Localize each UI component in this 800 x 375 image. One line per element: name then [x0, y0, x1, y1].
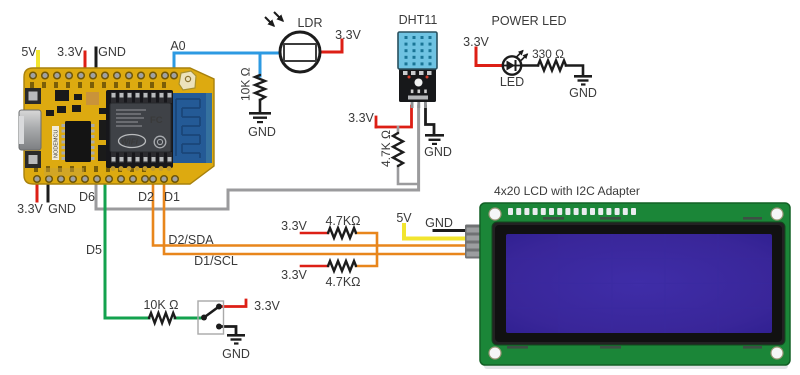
svg-text:330 Ω: 330 Ω: [532, 47, 564, 61]
svg-text:GND: GND: [98, 45, 126, 59]
svg-text:10K Ω: 10K Ω: [143, 298, 178, 312]
svg-text:10K Ω: 10K Ω: [239, 67, 253, 101]
svg-text:GND: GND: [569, 86, 597, 100]
svg-text:D5: D5: [86, 243, 102, 257]
svg-text:5V: 5V: [396, 211, 412, 225]
svg-text:D1/SCL: D1/SCL: [194, 254, 238, 268]
svg-text:LDR: LDR: [297, 16, 322, 30]
svg-text:DHT11: DHT11: [399, 13, 438, 27]
svg-text:4.7KΩ: 4.7KΩ: [325, 275, 360, 289]
svg-text:4x20 LCD with I2C Adapter: 4x20 LCD with I2C Adapter: [494, 184, 640, 198]
svg-text:4.7K Ω: 4.7K Ω: [379, 130, 393, 167]
svg-text:3.3V: 3.3V: [348, 111, 374, 125]
svg-text:FC: FC: [150, 115, 163, 126]
svg-text:D2: D2: [138, 190, 154, 204]
svg-text:WiFi: WiFi: [121, 138, 139, 147]
svg-text:5V: 5V: [21, 45, 37, 59]
svg-text:GND: GND: [48, 202, 76, 216]
svg-text:3.3V: 3.3V: [254, 299, 280, 313]
svg-text:POWER LED: POWER LED: [491, 14, 566, 28]
svg-text:3.3V: 3.3V: [57, 45, 83, 59]
svg-text:GND: GND: [424, 145, 452, 159]
svg-text:D1: D1: [164, 190, 180, 204]
svg-text:3.3V: 3.3V: [335, 28, 361, 42]
svg-text:D2/SDA: D2/SDA: [168, 233, 214, 247]
svg-text:NODEMCU: NODEMCU: [54, 130, 60, 158]
svg-text:GND: GND: [248, 125, 276, 139]
svg-text:3.3V: 3.3V: [463, 35, 489, 49]
svg-text:4.7KΩ: 4.7KΩ: [325, 214, 360, 228]
svg-text:D6: D6: [79, 190, 95, 204]
svg-text:3.3V: 3.3V: [281, 268, 307, 282]
svg-text:LED: LED: [500, 75, 524, 89]
svg-text:3.3V: 3.3V: [17, 202, 43, 216]
svg-text:3.3V: 3.3V: [281, 219, 307, 233]
svg-text:A0: A0: [170, 39, 185, 53]
svg-text:GND: GND: [222, 347, 250, 361]
svg-text:GND: GND: [425, 216, 453, 230]
